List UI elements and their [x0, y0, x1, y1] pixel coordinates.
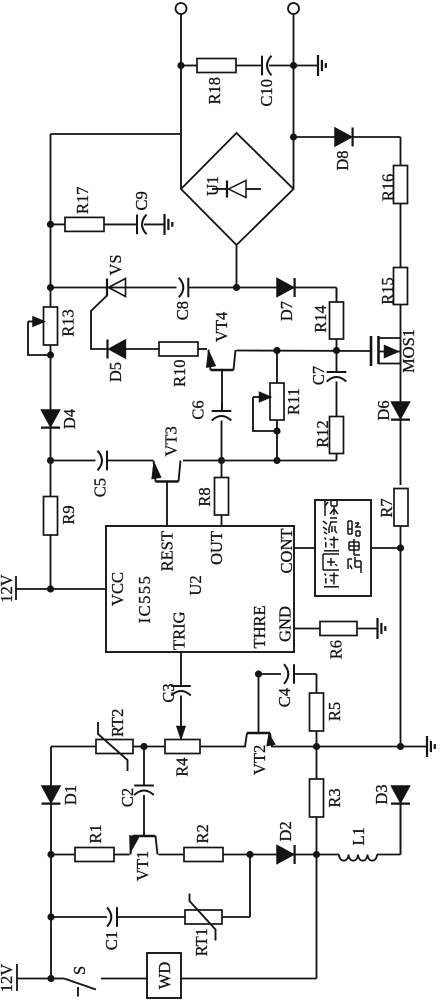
svg-text:R3: R3	[325, 788, 344, 807]
svg-text:C7: C7	[309, 366, 328, 385]
svg-text:C6: C6	[189, 400, 208, 419]
svg-text:THRE: THRE	[250, 605, 269, 648]
svg-text:D4: D4	[60, 409, 79, 429]
svg-text:R16: R16	[379, 174, 398, 202]
svg-text:D5: D5	[106, 362, 125, 382]
svg-text:R12: R12	[313, 420, 332, 448]
svg-text:R9: R9	[59, 505, 78, 524]
svg-text:D3: D3	[372, 784, 391, 804]
svg-text:U1: U1	[203, 176, 222, 196]
svg-text:R17: R17	[73, 186, 92, 214]
svg-text:C1: C1	[102, 931, 121, 950]
svg-text:R13: R13	[59, 309, 78, 337]
svg-text:TRIG: TRIG	[170, 611, 189, 650]
svg-text:WD: WD	[155, 962, 174, 990]
svg-text:IC555: IC555	[135, 575, 154, 624]
svg-text:R7: R7	[377, 498, 396, 517]
svg-text:S: S	[70, 966, 89, 975]
svg-text:GND: GND	[276, 606, 295, 642]
svg-text:OUT: OUT	[207, 531, 226, 565]
svg-text:C4: C4	[275, 688, 294, 707]
svg-text:C2: C2	[118, 788, 137, 807]
svg-text:VT4: VT4	[212, 312, 231, 342]
svg-text:L1: L1	[349, 827, 368, 845]
svg-text:VCC: VCC	[108, 572, 127, 606]
svg-text:R8: R8	[195, 487, 214, 506]
svg-text:R6: R6	[327, 640, 346, 659]
svg-text:C3: C3	[159, 683, 178, 702]
svg-text:U2: U2	[186, 575, 205, 595]
svg-text:R11: R11	[284, 388, 303, 415]
svg-text:D1: D1	[61, 785, 80, 805]
svg-text:C10: C10	[257, 79, 276, 107]
svg-text:12V: 12V	[0, 964, 16, 993]
svg-text:REST: REST	[158, 531, 177, 571]
svg-text:D6: D6	[374, 400, 393, 420]
svg-text:MOS1: MOS1	[399, 329, 418, 373]
svg-text:R1: R1	[86, 824, 105, 843]
svg-text:R15: R15	[378, 277, 397, 305]
svg-text:D2: D2	[276, 821, 295, 841]
svg-text:R10: R10	[170, 360, 189, 388]
svg-text:RT2: RT2	[108, 709, 127, 737]
svg-text:R18: R18	[205, 77, 224, 105]
svg-text:C8: C8	[173, 301, 192, 320]
svg-text:RT1: RT1	[192, 928, 211, 956]
svg-text:D7: D7	[277, 301, 296, 321]
svg-text:12V: 12V	[0, 574, 16, 603]
svg-text:C9: C9	[132, 191, 151, 210]
svg-text:CONT: CONT	[277, 529, 296, 574]
svg-text:R2: R2	[193, 824, 212, 843]
svg-text:R14: R14	[311, 305, 330, 333]
svg-text:R4: R4	[173, 758, 192, 777]
svg-text:VS: VS	[106, 254, 125, 275]
svg-text:D8: D8	[333, 151, 352, 171]
svg-text:VT1: VT1	[133, 851, 152, 881]
svg-text:C5: C5	[91, 478, 110, 497]
svg-text:R5: R5	[325, 702, 344, 721]
svg-text:VT2: VT2	[250, 745, 269, 775]
svg-text:VT3: VT3	[162, 426, 181, 456]
